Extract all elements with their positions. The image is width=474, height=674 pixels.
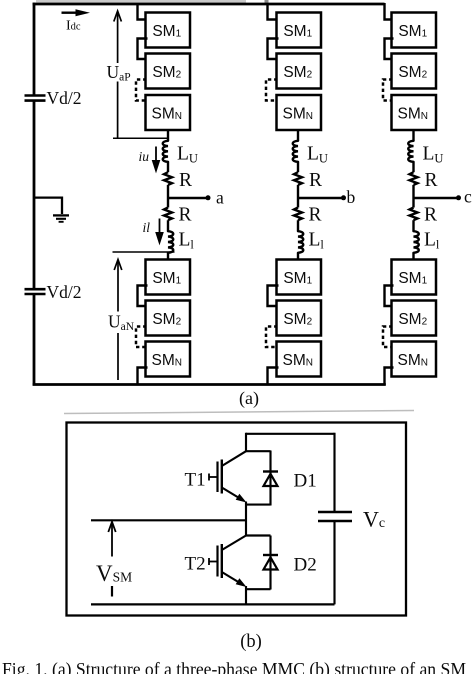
ground: [53, 215, 69, 221]
svg-text:T1: T1: [185, 470, 206, 491]
SM detail enclosure box: [67, 423, 407, 616]
svg-text:Ll: Ll: [424, 229, 440, 251]
svg-text:a: a: [216, 188, 224, 208]
svg-text:LU: LU: [307, 144, 328, 166]
wire SM input (middle rail): [91, 519, 246, 521]
wire SMN to inductor (phase a): [167, 129, 169, 141]
submodule SM1 (upper arm, phase b): [277, 13, 322, 48]
submodule SMN (upper arm, phase b): [277, 95, 322, 130]
wire D2 bottom link: [246, 588, 271, 590]
wire lower SMN to bottom bus (phase a): [138, 368, 148, 386]
wire SM1-SM2 link (upper arm, phase a): [138, 39, 148, 60]
svg-text:Fig. 1. (a) Structure of a thr: Fig. 1. (a) Structure of a three-phase M…: [2, 660, 466, 674]
diode D1: [263, 451, 278, 506]
inductor LU (phase a): [163, 141, 168, 162]
capacitor Vd/2 (top): [25, 96, 46, 101]
wire dashed SM2-SMN link (upper arm, phase c): [383, 80, 393, 101]
svg-text:D2: D2: [294, 555, 317, 576]
submodule SM1 (lower arm, phase a): [146, 260, 191, 295]
wire SM1-SM2 link (upper arm, phase c): [385, 39, 394, 60]
wire lower R to inductor Ll (phase c): [412, 220, 414, 231]
resistor R lower (phase c): [410, 208, 418, 221]
node c terminal dot: [456, 195, 461, 200]
wire phase node lead b: [298, 197, 344, 199]
measurement arrow UaN: [114, 260, 122, 381]
wire inductor Ll to lower SM1 (phase b): [297, 253, 299, 261]
wire left DC bus (lower segment): [33, 294, 36, 385]
wire lower R to inductor Ll (phase a): [167, 220, 169, 231]
wire T2 emitter: [245, 586, 247, 605]
wire upper R to lower R through node (phase c): [412, 185, 414, 208]
wire inductor to resistor (phase a): [167, 162, 169, 172]
wire top rail (SM): [246, 433, 335, 435]
wire top bus drop, phase a upper arm: [138, 3, 148, 20]
wire T2 collector corner / D2 top link: [246, 534, 271, 536]
wire T1 collector: [246, 433, 271, 451]
measurement arrow VSM: [108, 522, 115, 597]
submodule SM1 (upper arm, phase c): [392, 13, 437, 48]
svg-text:Vd/2: Vd/2: [47, 282, 82, 302]
svg-text:R: R: [179, 204, 192, 225]
submodule SMN (upper arm, phase a): [146, 95, 191, 130]
node b terminal dot: [341, 195, 346, 200]
current arrow Idc: [62, 9, 91, 16]
submodule SM1 (upper arm, phase a): [146, 13, 191, 48]
svg-text:b: b: [347, 187, 356, 207]
current arrow iu: [152, 147, 161, 174]
inductor Ll (phase b): [298, 231, 303, 253]
current arrow il: [155, 219, 164, 246]
submodule SMN (lower arm, phase c): [392, 342, 437, 377]
submodule SMN (lower arm, phase b): [277, 342, 322, 377]
inductor Ll (phase c): [414, 231, 419, 253]
measurement boundary line UaN: [113, 251, 175, 253]
svg-text:UaN: UaN: [108, 312, 135, 334]
svg-text:Vc: Vc: [363, 507, 385, 532]
svg-text:UaP: UaP: [107, 62, 131, 84]
wire D1 bottom link: [246, 504, 271, 506]
svg-text:(b): (b): [240, 632, 262, 652]
wire dashed SM2-SMN link (lower arm, phase a): [136, 327, 147, 348]
resistor R lower (phase a): [164, 208, 172, 221]
wire SMN to inductor (phase c): [412, 129, 414, 141]
svg-text:R: R: [309, 170, 322, 191]
svg-text:Ll: Ll: [179, 229, 195, 251]
svg-text:Ll: Ll: [309, 229, 325, 251]
wire upper R to lower R through node (phase a): [167, 185, 169, 208]
svg-text:Idc: Idc: [66, 19, 81, 34]
transistor T1 (IGBT): [209, 451, 247, 502]
transistor T2 (IGBT): [209, 536, 247, 588]
submodule SM2 (upper arm, phase b): [277, 54, 322, 89]
wire bottom rail (SM): [91, 603, 335, 605]
submodule SM1 (lower arm, phase c): [392, 260, 437, 295]
wire dashed SM2-SMN link (upper arm, phase a): [136, 80, 147, 101]
wire phase node lead a: [168, 197, 208, 199]
svg-text:R: R: [309, 204, 322, 225]
wire inductor to resistor (phase b): [297, 162, 299, 172]
diode D2: [263, 536, 278, 590]
svg-text:c: c: [464, 187, 472, 207]
wire left DC bus (middle segment): [33, 101, 36, 289]
svg-text:T2: T2: [185, 554, 206, 575]
wire SM1-SM2 link (lower arm, phase a): [138, 286, 148, 307]
wire lower R to inductor Ll (phase b): [297, 220, 299, 231]
wire inductor to resistor (phase c): [412, 162, 414, 172]
svg-text:LU: LU: [177, 144, 198, 166]
svg-text:R: R: [179, 170, 192, 191]
svg-text:Vd/2: Vd/2: [47, 88, 82, 108]
svg-text:D1: D1: [294, 471, 317, 492]
wire dashed SM2-SMN link (lower arm, phase c): [383, 327, 393, 348]
measurement boundary line UaP: [113, 137, 168, 139]
capacitor Vd/2 (bottom): [25, 289, 46, 294]
wire inductor Ll to lower SM1 (phase a): [167, 253, 169, 261]
wire lower SMN to bottom bus (phase c): [385, 368, 394, 386]
inductor LU (phase b): [293, 141, 298, 162]
wire phase node lead c: [414, 197, 459, 199]
wire ground stub: [34, 198, 62, 214]
submodule SM2 (upper arm, phase c): [392, 54, 437, 89]
svg-text:LU: LU: [423, 144, 444, 166]
wire SM1-SM2 link (upper arm, phase b): [268, 39, 279, 60]
resistor R upper (phase b): [294, 172, 302, 185]
resistor R upper (phase c): [410, 172, 418, 185]
wire upper R to lower R through node (phase b): [297, 185, 299, 208]
wire SM1-SM2 link (lower arm, phase b): [268, 286, 279, 307]
measurement arrow UaP: [114, 11, 122, 138]
submodule SM2 (upper arm, phase a): [146, 54, 191, 89]
resistor R upper (phase a): [164, 172, 172, 185]
capacitor Vc: [318, 433, 352, 605]
resistor R lower (phase b): [294, 208, 302, 221]
wire SM1-SM2 link (lower arm, phase c): [385, 286, 394, 307]
wire T1 emitter / T2 collector: [245, 502, 247, 537]
wire left DC bus (upper segment): [33, 3, 36, 95]
submodule SM2 (lower arm, phase a): [146, 301, 191, 336]
wire top bus drop, phase b upper arm: [268, 3, 279, 20]
svg-text:iu: iu: [139, 149, 150, 164]
svg-text:VSM: VSM: [96, 561, 132, 586]
wire lower SMN to bottom bus (phase b): [268, 368, 279, 386]
wire SMN to inductor (phase b): [297, 129, 299, 141]
wire dashed SM2-SMN link (upper arm, phase b): [266, 80, 278, 101]
svg-text:R: R: [424, 204, 437, 225]
node a terminal dot: [206, 195, 211, 200]
wire inductor Ll to lower SM1 (phase c): [412, 253, 414, 261]
wire dashed SM2-SMN link (lower arm, phase b): [266, 327, 278, 348]
submodule SM2 (lower arm, phase c): [392, 301, 437, 336]
svg-text:(a): (a): [239, 388, 259, 409]
svg-text:il: il: [143, 220, 151, 235]
submodule SMN (lower arm, phase a): [146, 342, 191, 377]
inductor LU (phase c): [408, 141, 413, 162]
submodule SM2 (lower arm, phase b): [277, 301, 322, 336]
inductor Ll (phase a): [168, 231, 173, 253]
wire bottom DC bus: [33, 383, 386, 386]
wire top DC bus: [33, 3, 385, 6]
svg-text:R: R: [425, 170, 438, 191]
wire top bus drop, phase c upper arm: [385, 3, 394, 20]
submodule SM1 (lower arm, phase b): [277, 260, 322, 295]
submodule SMN (upper arm, phase c): [392, 95, 437, 130]
